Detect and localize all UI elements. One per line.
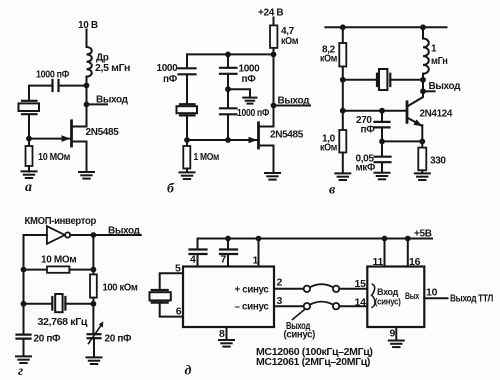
svg-text:Вых: Вых — [405, 291, 419, 301]
wire pin14 — [339, 305, 367, 307]
svg-text:14: 14 — [355, 296, 367, 308]
svg-text:15: 15 — [355, 278, 367, 290]
resistor 10 MOhm feedback — [24, 266, 94, 272]
svg-text:кОм: кОм — [320, 142, 337, 153]
svg-text:Вход: Вход — [377, 287, 399, 297]
resistor 10 MOhm — [26, 139, 33, 172]
svg-text:20 пФ: 20 пФ — [34, 333, 62, 344]
node output — [271, 103, 277, 109]
ground under resistor — [22, 171, 37, 178]
node crystal-output upper — [420, 77, 426, 83]
capacitor 20pF variable — [88, 321, 104, 343]
svg-text:– синус: – синус — [235, 302, 270, 313]
svg-text:1000 пФ: 1000 пФ — [237, 108, 270, 119]
crystal Y1 — [19, 101, 40, 114]
wire rail to 8.2k — [342, 27, 344, 43]
wire cap to crystal — [186, 74, 188, 104]
wire gate with arrow — [187, 137, 258, 144]
ground small mid — [243, 98, 256, 104]
transistor Q 2N5485 — [259, 106, 274, 173]
capacitor 270pF — [375, 111, 390, 142]
wire output stub — [87, 103, 108, 105]
node 270pF top — [379, 108, 385, 114]
node crystal right — [91, 301, 97, 307]
svg-text:пФ: пФ — [163, 74, 178, 85]
node output lower — [420, 88, 426, 94]
node pin1 — [256, 236, 262, 242]
wire pin15 — [339, 288, 367, 290]
resistor 1.0 kOhm — [339, 130, 346, 173]
resistor 1 MOhm — [183, 140, 190, 172]
ground under 1 MOhm — [180, 172, 195, 179]
svg-text:а: а — [25, 180, 32, 195]
svg-text:11: 11 — [373, 256, 384, 268]
transistor Q 2N4124 — [407, 91, 423, 141]
wire pin16 — [407, 239, 409, 267]
wire varcap to ground — [93, 338, 95, 357]
svg-text:кОм: кОм — [320, 54, 337, 65]
wire choke to node — [86, 77, 88, 105]
svg-text:6: 6 — [176, 306, 182, 318]
wire crystal left lead — [24, 303, 53, 305]
svg-text:1: 1 — [431, 44, 437, 55]
node pin11 — [382, 236, 388, 242]
connector circle 2b — [333, 286, 339, 292]
ground under 1.0k — [335, 173, 350, 180]
capacitor 1000pF plates — [53, 80, 59, 91]
svg-text:пФ: пФ — [361, 124, 376, 135]
capacitor C4 — [190, 239, 207, 267]
wire pin3 — [274, 305, 304, 307]
capacitor 1000pF middle lower — [220, 108, 237, 114]
ground under 330 — [415, 173, 430, 180]
svg-text:+ синус: + синус — [235, 284, 270, 295]
svg-text:1000 пФ: 1000 пФ — [36, 70, 70, 81]
svg-text:+5В: +5В — [414, 228, 432, 239]
svg-text:1: 1 — [253, 254, 259, 266]
wire rail to mid cap — [227, 54, 229, 67]
svg-text:5: 5 — [175, 262, 181, 274]
svg-text:КМОП-инвертор: КМОП-инвертор — [25, 216, 97, 227]
svg-text:Выход: Выход — [108, 225, 141, 236]
node output — [91, 232, 97, 238]
wire crystal right lead — [390, 79, 423, 81]
inductor Dr 2.5 mH coil — [87, 47, 92, 77]
svg-text:3: 3 — [277, 295, 283, 307]
inductor 1 mH coil — [423, 39, 429, 74]
wire output stub — [423, 90, 435, 92]
svg-text:Выход: Выход — [278, 96, 311, 107]
node emitter junction — [419, 139, 425, 145]
wire crystal right lead — [65, 303, 93, 305]
svg-text:10: 10 — [426, 287, 438, 299]
node rail left — [340, 24, 346, 30]
crystal Y4 32768 — [52, 294, 65, 312]
svg-text:2N5485: 2N5485 — [86, 127, 120, 138]
IC U1 MC12060 box — [183, 267, 274, 328]
resistor 4.7 kOhm — [270, 25, 277, 48]
svg-text:(синус): (синус) — [284, 329, 316, 340]
node output junction — [84, 102, 90, 108]
wire crystal to bottom node — [186, 115, 188, 140]
svg-text:(синус): (синус) — [375, 297, 401, 307]
resistor 8.2 kOhm — [339, 43, 346, 67]
crystal Y5 — [150, 290, 171, 303]
wire inductor to collector — [422, 74, 424, 97]
wire pin5 to crystal — [160, 273, 183, 289]
wire ground tap — [228, 89, 250, 97]
svg-text:10 МОм: 10 МОм — [41, 255, 76, 266]
wire cap to node — [59, 85, 87, 87]
wire pin8 — [226, 327, 228, 340]
ground under source — [79, 172, 94, 179]
svg-text:7: 7 — [221, 253, 227, 265]
wire emitter row — [382, 140, 422, 142]
wire gate with arrow — [29, 135, 71, 142]
node crystal left — [21, 301, 27, 307]
wire inverter output — [70, 234, 140, 236]
node gate junction — [26, 136, 32, 142]
brace input group — [372, 284, 375, 307]
svg-text:в: в — [329, 183, 336, 198]
svg-text:д: д — [185, 364, 192, 379]
inverter U1 — [47, 226, 70, 244]
node cap junction — [379, 139, 385, 145]
svg-text:Выход: Выход — [429, 81, 462, 92]
svg-text:32,768 кГц: 32,768 кГц — [38, 317, 89, 328]
wire rail to left cap — [186, 54, 188, 68]
svg-text:мГн: мГн — [431, 56, 448, 67]
node ground tap — [225, 86, 231, 92]
svg-text:Выход: Выход — [96, 94, 129, 105]
svg-text:20 пФ: 20 пФ — [105, 333, 133, 344]
svg-text:б: б — [167, 182, 175, 197]
svg-text:8: 8 — [219, 328, 225, 340]
node bottom left — [184, 137, 190, 143]
svg-text:10 МОм: 10 МОм — [38, 152, 70, 163]
wire pin11 — [384, 239, 386, 267]
node bottom mid — [225, 137, 231, 143]
capacitor 0.05uF — [375, 141, 391, 172]
node rail right — [271, 52, 277, 58]
connector circle 2a — [304, 286, 310, 292]
wire top rail — [325, 26, 446, 28]
wire mid cap to ground tap — [227, 74, 229, 108]
svg-text:16: 16 — [409, 256, 421, 268]
wire jumper arc lower — [310, 302, 333, 305]
wire rail to inductor — [422, 27, 424, 38]
wire inverter input — [24, 234, 47, 236]
wire pin10 output — [424, 297, 447, 299]
svg-text:2N5485: 2N5485 — [270, 129, 304, 140]
node drain-top junction — [84, 83, 90, 89]
wire supply to choke — [86, 30, 88, 48]
wire top rail — [187, 53, 274, 55]
svg-text:мкФ: мкФ — [356, 163, 376, 174]
svg-text:2N4124: 2N4124 — [420, 109, 453, 120]
svg-text:+24 В: +24 В — [258, 8, 283, 19]
wire pointer to sinus output — [293, 310, 305, 320]
wire crystal to pin6 — [160, 303, 183, 317]
svg-text:4: 4 — [190, 254, 196, 266]
wire output stub — [274, 105, 311, 107]
wire left rail — [342, 67, 344, 131]
node feedback right — [91, 267, 97, 273]
resistor 100 kOhm — [90, 274, 97, 297]
transistor Q 2N5485 — [72, 104, 87, 171]
wire crystal to gate node — [28, 114, 30, 138]
wire +5V rail — [198, 238, 433, 240]
crystal Y3 — [377, 69, 390, 90]
crystal Y2 — [177, 104, 198, 115]
ground pin8 — [219, 340, 234, 347]
wire right rail — [92, 235, 94, 274]
svg-text:кОм: кОм — [281, 36, 298, 47]
svg-text:г: г — [18, 364, 23, 379]
svg-text:Др: Др — [96, 53, 109, 64]
svg-text:9: 9 — [390, 328, 396, 340]
svg-text:1 МОм: 1 МОм — [194, 152, 220, 163]
svg-text:2,5 мГн: 2,5 мГн — [95, 63, 130, 74]
capacitor 1000pF middle upper — [220, 68, 237, 74]
capacitor 20pF left — [17, 335, 31, 339]
node cap7 — [225, 236, 231, 242]
svg-text:пФ: пФ — [242, 74, 257, 85]
wire supply to resistor — [273, 18, 275, 26]
node base junction — [340, 108, 346, 114]
wire pin2 — [274, 288, 304, 290]
wire 100k to crystal node — [92, 298, 94, 334]
svg-text:1000: 1000 — [157, 63, 179, 74]
connector circle 3b — [333, 303, 339, 309]
IC U2 box — [367, 267, 424, 328]
svg-text:Выход ТТЛ: Выход ТТЛ — [450, 293, 493, 304]
node feedback left — [21, 267, 27, 273]
svg-text:2: 2 — [277, 276, 283, 288]
node rail mid — [225, 52, 231, 58]
ground right — [87, 357, 102, 364]
wire base lead — [343, 110, 406, 112]
wire lower cap to bottom node — [227, 114, 229, 140]
capacitor C7 — [220, 239, 237, 267]
wire cap to crystal — [29, 86, 53, 101]
node pin16 — [405, 236, 411, 242]
node rail right — [420, 24, 426, 30]
wire resistor to drain — [273, 48, 275, 106]
ground left — [16, 356, 31, 363]
resistor 330 — [418, 141, 426, 173]
connector circle 3a — [304, 303, 310, 309]
node crystal junction — [340, 77, 346, 83]
ground pin9 — [389, 341, 404, 348]
wire left rail — [23, 235, 25, 334]
wire pin9 — [395, 327, 397, 340]
svg-text:100 кОм: 100 кОм — [103, 282, 138, 293]
svg-text:MC12061 (2МГц–20МГц): MC12061 (2МГц–20МГц) — [256, 357, 370, 368]
wire jumper arc upper — [310, 284, 333, 287]
svg-text:1000: 1000 — [239, 64, 261, 75]
ground under cap — [375, 173, 390, 180]
capacitor 1000pF left — [179, 68, 196, 74]
svg-text:330: 330 — [430, 155, 446, 166]
ground under source — [265, 173, 280, 180]
wire cap to ground — [23, 339, 25, 356]
svg-text:10 В: 10 В — [78, 20, 98, 31]
wire pin1 — [258, 239, 260, 267]
wire crystal left lead — [343, 79, 377, 81]
